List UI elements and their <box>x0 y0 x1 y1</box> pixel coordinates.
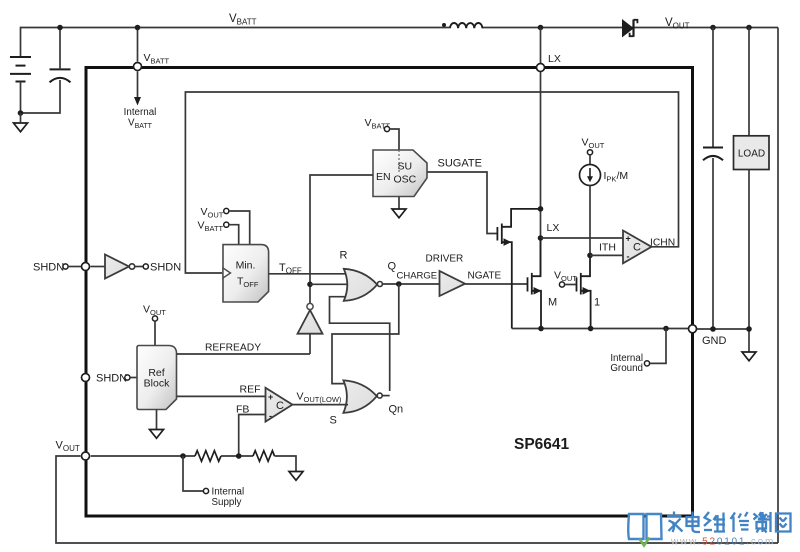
arrow Q1 source <box>504 238 512 246</box>
node LX pin <box>537 64 545 72</box>
watermark char zi <box>754 513 767 533</box>
inductor L1 <box>449 26 482 28</box>
junction M gnd <box>538 326 544 332</box>
svg-text:FB: FB <box>236 404 249 416</box>
wire cap top <box>59 28 61 70</box>
wire Qn feedback to R gate <box>330 297 390 391</box>
wire ipk stem top <box>589 155 591 165</box>
junction output cap rail <box>710 25 716 31</box>
svg-text:+: + <box>626 234 631 244</box>
junction LX rail <box>538 25 544 31</box>
inverter U2 shdn <box>105 255 129 279</box>
node VBATT pin <box>134 63 142 71</box>
pin SHDN outer circle <box>63 264 68 269</box>
pin VBATT minTOFF circle <box>224 222 229 227</box>
svg-text:REF: REF <box>240 384 261 396</box>
block SU OSC <box>373 150 427 197</box>
svg-text:Internal: Internal <box>124 107 157 118</box>
clock marker minTOFF <box>223 268 231 278</box>
junction FB tap <box>236 453 242 459</box>
junction cap gnd <box>710 326 716 332</box>
pin SHDN2 circle <box>125 375 130 380</box>
wire TOFF out <box>269 273 352 275</box>
pin VOUT fet1 circle <box>559 282 564 287</box>
inner loop ICHN to MinTOFF <box>185 92 678 273</box>
wire dotted suosc <box>398 150 400 174</box>
node GND pin <box>689 325 697 333</box>
transistor M <box>528 238 542 329</box>
wire LX to comparator <box>541 237 624 239</box>
junction cap top rail <box>57 25 63 31</box>
block Ref Block <box>137 346 177 410</box>
ground ref block <box>150 430 164 439</box>
wire bottom VOUT return <box>56 456 778 543</box>
arrow M source <box>534 287 542 295</box>
junction load gnd <box>746 326 752 332</box>
watermark char jia <box>667 512 683 533</box>
junction inverter out split <box>307 282 313 288</box>
diode D1 schottky <box>623 20 634 37</box>
junction ITH <box>587 253 593 259</box>
pin internal ground circle <box>644 361 649 366</box>
transistor 1 <box>577 255 591 328</box>
wire suosc ground <box>398 197 400 210</box>
inductor L1 dot <box>442 23 446 27</box>
inverter U3 refready <box>298 310 323 334</box>
pin VOUT ref circle <box>152 316 157 321</box>
wire load bottom <box>748 170 750 353</box>
svg-text:Internal: Internal <box>212 487 245 498</box>
svg-text:www.520101.com: www.520101.com <box>670 537 775 548</box>
svg-text:SP6641: SP6641 <box>514 436 570 453</box>
junction LX node <box>538 235 544 241</box>
wire Qn output <box>382 395 390 397</box>
wire R2 to ground <box>275 456 297 472</box>
svg-text:SHDN: SHDN <box>96 373 127 385</box>
svg-text:SUGATE: SUGATE <box>438 158 482 170</box>
svg-text:-: - <box>269 411 272 421</box>
watermark char dian <box>687 512 701 533</box>
wire ref gnd <box>156 410 158 430</box>
capacitor C1 input <box>50 69 71 82</box>
ground suosc <box>392 209 406 218</box>
capacitor C2 output <box>703 148 723 161</box>
svg-text:OSC: OSC <box>394 174 417 186</box>
IC boundary SP6641 <box>86 68 693 517</box>
driver U6 <box>440 271 466 296</box>
wire internal ground <box>650 329 667 364</box>
NOR gate U4 (R) <box>344 269 377 301</box>
svg-text:-: - <box>627 252 630 262</box>
wire ITH to comparator <box>590 254 623 256</box>
comparator U8 C <box>266 388 293 422</box>
block Min TOFF <box>223 245 269 302</box>
wire refready inverter input <box>309 334 311 354</box>
svg-text:C: C <box>276 400 284 412</box>
pin VOUT minTOFF circle <box>224 208 229 213</box>
wire Q feedback to S gate <box>332 284 399 384</box>
wire ipk to ITH <box>589 186 591 256</box>
wire FB <box>239 415 266 457</box>
junction load rail <box>746 25 752 31</box>
watermark char xiu <box>731 512 750 532</box>
svg-text:1: 1 <box>594 297 600 309</box>
pin internal supply circle <box>203 488 208 493</box>
svg-text:Min.: Min. <box>236 260 256 272</box>
svg-text:R: R <box>340 250 348 262</box>
resistor R2 <box>253 451 275 462</box>
wire LX column <box>540 28 542 277</box>
wire REF <box>177 395 266 397</box>
pin SHDNbar circle <box>143 264 148 269</box>
junction battery-cap bottom <box>18 110 24 116</box>
svg-text:S: S <box>330 415 337 427</box>
wire VOUT ref stem <box>154 321 156 345</box>
svg-text:GND: GND <box>702 335 727 347</box>
svg-text:ITH: ITH <box>599 242 616 254</box>
wire SHDN2 to ref block <box>130 377 137 379</box>
ground output <box>742 352 756 361</box>
transistor Q1 startup <box>497 209 540 329</box>
svg-text:Qn: Qn <box>389 404 404 416</box>
wire GND rail inside <box>512 328 693 330</box>
svg-text:C: C <box>633 242 641 254</box>
resistor R1 <box>195 451 221 462</box>
node SHDN pin <box>82 263 90 271</box>
svg-text:REFREADY: REFREADY <box>205 343 261 354</box>
wire internal vbatt stem <box>137 72 139 98</box>
junction internal ground <box>663 326 669 332</box>
svg-text:Ground: Ground <box>610 363 643 374</box>
junction 1 gnd <box>588 326 594 332</box>
svg-text:ICHN: ICHN <box>650 237 675 248</box>
wire GND rail outside <box>693 328 750 330</box>
svg-text:SHDN: SHDN <box>150 262 181 274</box>
junction VBATT rail <box>135 25 141 31</box>
watermark char wei <box>704 512 725 532</box>
svg-text:LX: LX <box>548 53 561 65</box>
wire NGATE <box>465 283 528 285</box>
svg-text:NGATE: NGATE <box>468 271 502 282</box>
svg-text:M: M <box>548 297 557 309</box>
svg-text:SHDN: SHDN <box>33 262 64 274</box>
watermark logo book icon <box>628 514 661 539</box>
wire battery to ground <box>21 80 61 113</box>
wire SHDN to inverter <box>91 266 106 268</box>
comparator U7 ICHN <box>623 231 652 264</box>
wire Q output <box>382 283 439 285</box>
wire VOUT LOW <box>292 404 348 406</box>
svg-text:DRIVER: DRIVER <box>426 254 464 265</box>
wire VBATT suosc <box>390 129 400 150</box>
ground divider <box>289 472 303 481</box>
svg-text:Q: Q <box>388 261 397 273</box>
load box <box>734 136 770 170</box>
svg-text:CHARGE: CHARGE <box>397 271 438 282</box>
arrow internal vbatt <box>134 97 141 106</box>
pin VOUT ipk circle <box>587 150 592 155</box>
junction Q split <box>396 281 402 287</box>
wire VBATT top rail <box>21 28 779 58</box>
watermark green check <box>640 538 650 546</box>
wire EN input <box>310 175 373 303</box>
svg-text:+: + <box>268 392 273 402</box>
wire load top <box>748 28 750 136</box>
svg-text:LX: LX <box>547 222 560 234</box>
wire inverter out to NOR <box>310 283 350 285</box>
svg-text:Block: Block <box>144 378 170 390</box>
node VOUT pin <box>82 452 90 460</box>
current source IPK/M <box>580 165 601 186</box>
NOR gate U5 (S) <box>343 380 376 413</box>
wire VOUT divider rail <box>91 455 195 457</box>
battery B1 <box>10 57 31 82</box>
wire right edge VOUT down <box>777 28 779 544</box>
wire VBATT minTOFF <box>229 225 239 245</box>
pin VBATT suosc circle <box>384 126 389 131</box>
svg-text:Supply: Supply <box>212 497 242 508</box>
watermark char wang <box>776 514 791 532</box>
wire VOUT to gate1 <box>565 284 577 286</box>
wire REFREADY <box>177 353 311 355</box>
wire SUGATE <box>427 172 497 234</box>
wire internal supply <box>183 456 204 491</box>
junction Q1 drain LX column <box>538 206 544 212</box>
wire VOUT minTOFF <box>229 211 250 245</box>
arrow 1 source <box>583 287 591 295</box>
junction internal supply tap <box>180 453 186 459</box>
wire SHDN to boundary <box>68 266 81 268</box>
wire output cap bottom <box>712 158 714 329</box>
svg-text:SU: SU <box>398 161 413 173</box>
ground battery <box>14 123 28 132</box>
wire ground stem <box>20 113 22 123</box>
svg-text:LOAD: LOAD <box>738 149 765 160</box>
node SHDN2 pin <box>82 374 90 382</box>
wire inverter out <box>135 266 143 268</box>
node VBATT stem <box>137 28 139 62</box>
wire output cap top <box>712 28 714 148</box>
svg-text:EN: EN <box>376 171 391 183</box>
wire between resistors <box>221 455 253 457</box>
watermark char liao <box>758 512 771 532</box>
